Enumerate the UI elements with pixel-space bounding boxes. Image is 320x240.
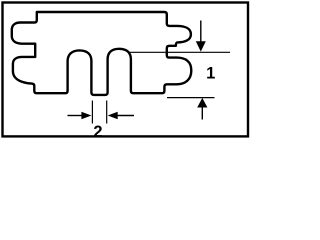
svg-text:1: 1 xyxy=(206,65,215,83)
svg-text:2: 2 xyxy=(93,123,102,141)
